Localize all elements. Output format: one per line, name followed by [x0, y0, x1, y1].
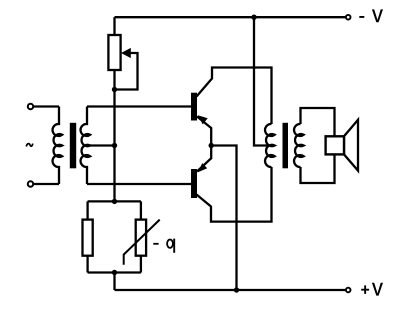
wire input top: [34, 105, 59, 107]
transformer T1 core: [70, 123, 76, 169]
label -V: [359, 9, 383, 22]
potentiometer R1 body: [108, 35, 120, 70]
node network bottom junction: [112, 270, 117, 275]
wire Q2 base: [87, 183, 191, 185]
wire network to +V rail: [113, 273, 115, 291]
potentiometer R1 wiper arrow: [115, 48, 138, 90]
wire resistor bottom lead: [86, 256, 88, 273]
wire bottom +V rail: [115, 289, 346, 291]
label ~ AC source: [26, 144, 33, 147]
transistor Q2 emitter: [197, 146, 211, 173]
wire top -V rail: [115, 16, 346, 18]
wire -V to T2 center tap: [254, 17, 269, 145]
wire network bottom bus: [88, 271, 141, 273]
transformer T1 primary winding: [53, 107, 63, 185]
wire pot top lead: [113, 17, 115, 35]
transistor Q1 emitter: [197, 115, 211, 145]
transformer T1 secondary winding: [81, 107, 91, 185]
thermistor R3 body: [136, 220, 146, 256]
node bottom rail junction: [234, 287, 239, 292]
wire Q1 base: [87, 105, 191, 107]
wire thermistor bottom lead: [140, 256, 142, 273]
transformer T2 core: [283, 123, 289, 169]
wire input bottom: [34, 183, 59, 185]
speaker LS1 body: [326, 136, 344, 154]
wire T1 center tap: [86, 144, 115, 146]
transistor Q1 collector: [197, 68, 272, 125]
node top rail junction: [251, 15, 256, 20]
wire pot bottom / bias vertical: [113, 70, 115, 202]
node center-tap junction: [112, 143, 117, 148]
transistor Q2 base bar: [191, 169, 197, 198]
terminal -V: [346, 15, 351, 20]
resistor R2 body: [83, 220, 93, 256]
node emitter junction: [209, 143, 214, 148]
wire bias network top bus: [88, 200, 141, 202]
node network top junction: [112, 199, 117, 204]
label +V: [361, 283, 383, 296]
wire T2 secondary to speaker loop: [301, 108, 335, 183]
transistor Q2 collector: [197, 167, 272, 222]
terminal input top: [28, 104, 33, 109]
label -q thermistor: [153, 239, 174, 253]
transistor Q1 base bar: [191, 93, 197, 121]
speaker LS1 horn: [344, 120, 358, 171]
transformer T2 primary winding: [265, 124, 275, 167]
wire resistor top lead: [86, 201, 88, 219]
terminal input bottom: [28, 181, 33, 186]
transformer T2 secondary winding: [294, 124, 304, 167]
wire thermistor top lead: [140, 201, 142, 219]
thermistor R3 diagonal stroke: [124, 220, 160, 265]
terminal +V: [346, 288, 351, 293]
wire emitter to +V rail: [211, 146, 236, 291]
node pot wiper junction: [112, 87, 117, 92]
